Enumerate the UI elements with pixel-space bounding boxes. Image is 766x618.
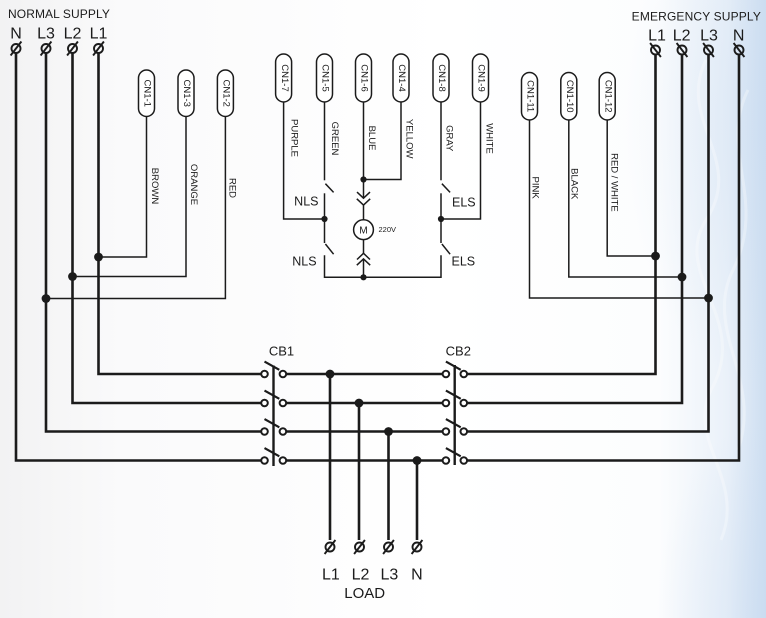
wire CN1-11 pink to L3 emergency (530, 120, 709, 298)
wire CN1-8 gray to ELS switch (440, 102, 442, 180)
wire CN1-6 blue to motor node (363, 102, 365, 180)
wire row1 CB1 to CB2 (287, 373, 442, 376)
junction dot row1 load L1 (326, 370, 335, 379)
svg-text:CN1-9: CN1-9 (476, 64, 487, 91)
svg-text:ELS: ELS (452, 255, 476, 269)
terminal N normal (11, 42, 22, 56)
wire L3 emergency to CB2 row3 (468, 55, 709, 432)
svg-text:RED: RED (226, 178, 237, 198)
wire N normal to CB1 row4 (16, 54, 261, 461)
junction dot L2 emergency / black (678, 273, 687, 282)
svg-text:M: M (359, 226, 368, 237)
breaker CB2 tie bar (454, 365, 456, 465)
wire load N drop (416, 461, 419, 541)
wire lower chevrons to bottom node (363, 259, 365, 277)
svg-text:L2: L2 (673, 27, 691, 44)
breaker CB2 pole 1 (443, 362, 468, 378)
connector CN1-9 (473, 54, 489, 102)
svg-text:GREEN: GREEN (329, 122, 340, 156)
wire CN1-9 white to ELS node (441, 102, 481, 219)
svg-text:N: N (733, 27, 745, 44)
breaker CB1 pole 2 (261, 391, 286, 407)
connector CN1-2 (217, 70, 233, 117)
svg-text:L2: L2 (64, 25, 82, 42)
terminal L1 emergency (650, 43, 661, 57)
switch NLS upper blade (325, 184, 333, 193)
terminal L2 normal (67, 42, 78, 56)
svg-text:CN1-6: CN1-6 (359, 64, 370, 91)
terminal N emergency (734, 43, 745, 57)
wire load L1 drop (329, 374, 332, 540)
connector CN1-5 (317, 54, 333, 102)
junction dot ELS node (438, 216, 444, 222)
svg-text:CN1-3: CN1-3 (181, 79, 192, 106)
svg-text:N: N (411, 567, 423, 584)
svg-text:EMERGENCY SUPPLY: EMERGENCY SUPPLY (632, 10, 761, 24)
terminal L2 load (354, 540, 365, 554)
connector CN1-11 (522, 73, 538, 121)
junction dot L3 emergency / pink (704, 294, 713, 303)
terminal N load (412, 540, 423, 554)
breaker CB1 tie bar (272, 366, 274, 467)
svg-text:CB2: CB2 (446, 344, 471, 359)
svg-text:CB1: CB1 (269, 344, 294, 359)
wire L1 emergency to CB2 row1 (468, 55, 656, 374)
wire CN1-10 black to L2 emergency (569, 120, 682, 277)
svg-text:L1: L1 (648, 27, 666, 44)
connector CN1-1 (139, 70, 155, 117)
junction dot motor node top (360, 176, 366, 182)
junction dot row3 load L3 (384, 427, 393, 436)
svg-text:CN1-12: CN1-12 (602, 80, 613, 113)
svg-text:CN1-2: CN1-2 (221, 79, 232, 106)
breaker CB2 pole 2 (443, 391, 468, 407)
breaker CB1 pole 1 (261, 362, 286, 378)
svg-text:NLS: NLS (294, 194, 318, 208)
wire L1 normal to CB1 row1 (99, 54, 261, 375)
svg-text:PINK: PINK (530, 177, 541, 200)
terminal L3 emergency (703, 43, 714, 57)
junction dot row2 load L2 (355, 399, 364, 408)
svg-text:LOAD: LOAD (344, 585, 385, 602)
wire CN1-2 red to L3 (46, 117, 225, 299)
wire ELS upper output to ELS lower (440, 193, 442, 243)
terminal L3 load (383, 540, 394, 554)
svg-text:RED / WHITE: RED / WHITE (608, 153, 619, 212)
svg-text:220V: 220V (379, 225, 397, 234)
svg-text:ELS: ELS (452, 195, 476, 209)
wire bottom bus NLS to ELS (325, 255, 442, 277)
terminal L1 load (325, 540, 336, 554)
svg-text:L2: L2 (352, 567, 370, 584)
junction dot NLS node (321, 216, 327, 222)
svg-text:L1: L1 (322, 567, 340, 584)
wire CN1-7 purple to NLS node (284, 102, 325, 219)
junction dot L3 normal / red (42, 294, 51, 303)
terminal L2 emergency (677, 43, 688, 57)
switch ELS upper blade (442, 184, 450, 193)
svg-text:BROWN: BROWN (149, 168, 160, 205)
connector CN1-7 (276, 54, 292, 102)
wire CN1-1 brown to L1 (99, 117, 147, 258)
wire L2 normal to CB1 row2 (73, 54, 261, 404)
junction dot motor bottom node (360, 274, 366, 280)
breaker CB1 pole 3 (261, 419, 286, 435)
wire CN1-3 orange to L2 (73, 117, 187, 277)
breaker CB2 pole 4 (443, 448, 468, 464)
wire L2 emergency to CB2 row2 (468, 55, 682, 403)
svg-text:CN1-11: CN1-11 (525, 80, 536, 112)
connector CN1-12 (599, 73, 615, 121)
breaker CB2 pole 3 (443, 419, 468, 435)
junction dot L2 normal / orange (68, 272, 77, 281)
svg-text:CN1-10: CN1-10 (564, 80, 575, 113)
svg-text:GRAY: GRAY (444, 125, 455, 152)
junction dot L1 normal / brown (94, 253, 103, 262)
wire CN1-12 red/white to L1 emergency (607, 120, 655, 256)
wire N emergency to CB2 row4 (468, 55, 739, 461)
connector CN1-4 (393, 54, 409, 102)
svg-text:CN1-7: CN1-7 (279, 64, 290, 91)
switch NLS lower blade (325, 244, 333, 254)
svg-text:WHITE: WHITE (484, 123, 495, 154)
wire motor to lower chevrons (363, 240, 365, 254)
wire row3 CB1 to CB2 (287, 430, 442, 433)
svg-text:NLS: NLS (292, 254, 316, 268)
svg-text:NORMAL SUPPLY: NORMAL SUPPLY (8, 7, 110, 21)
wire row2 CB1 to CB2 (287, 402, 442, 405)
junction dot L1 emergency / red-white (651, 252, 660, 261)
svg-text:L3: L3 (37, 25, 55, 42)
wire CN1-4 yellow to motor node (364, 102, 402, 180)
svg-text:CN1-4: CN1-4 (396, 64, 407, 91)
svg-text:BLUE: BLUE (366, 126, 377, 151)
svg-text:ORANGE: ORANGE (188, 164, 199, 205)
svg-text:CN1-8: CN1-8 (436, 64, 447, 91)
connector CN1-8 (433, 54, 449, 102)
svg-text:L1: L1 (90, 25, 108, 42)
terminal L1 normal (93, 42, 104, 56)
svg-text:CN1-1: CN1-1 (142, 79, 153, 106)
terminal L3 normal (41, 42, 52, 56)
svg-text:L3: L3 (700, 27, 718, 44)
wire CN1-5 green to NLS switch (324, 102, 326, 180)
limit chevron upper pair (down) (357, 192, 370, 205)
svg-text:N: N (10, 25, 22, 42)
svg-text:YELLOW: YELLOW (404, 119, 415, 159)
connector CN1-3 (178, 70, 194, 117)
wire NLS upper output to NLS lower (324, 193, 326, 243)
limit chevron lower pair (up) (357, 253, 370, 265)
connector CN1-10 (561, 73, 577, 121)
svg-text:CN1-5: CN1-5 (320, 64, 331, 91)
connector CN1-6 (356, 54, 372, 102)
switch ELS lower blade (442, 244, 450, 254)
motor M 220V (354, 220, 396, 240)
junction dot row4 load N (413, 456, 422, 465)
wire load L3 drop (387, 432, 390, 541)
breaker CB1 pole 4 (261, 448, 286, 464)
wire motor node to chevrons (363, 180, 365, 199)
svg-text:L3: L3 (381, 567, 399, 584)
wire load L2 drop (358, 403, 361, 540)
wire L3 normal to CB1 row3 (46, 54, 261, 432)
wire chevrons to motor (363, 205, 365, 220)
svg-text:PURPLE: PURPLE (288, 119, 299, 157)
svg-text:BLACK: BLACK (569, 168, 580, 200)
wire row4 CB1 to CB2 (287, 459, 442, 462)
